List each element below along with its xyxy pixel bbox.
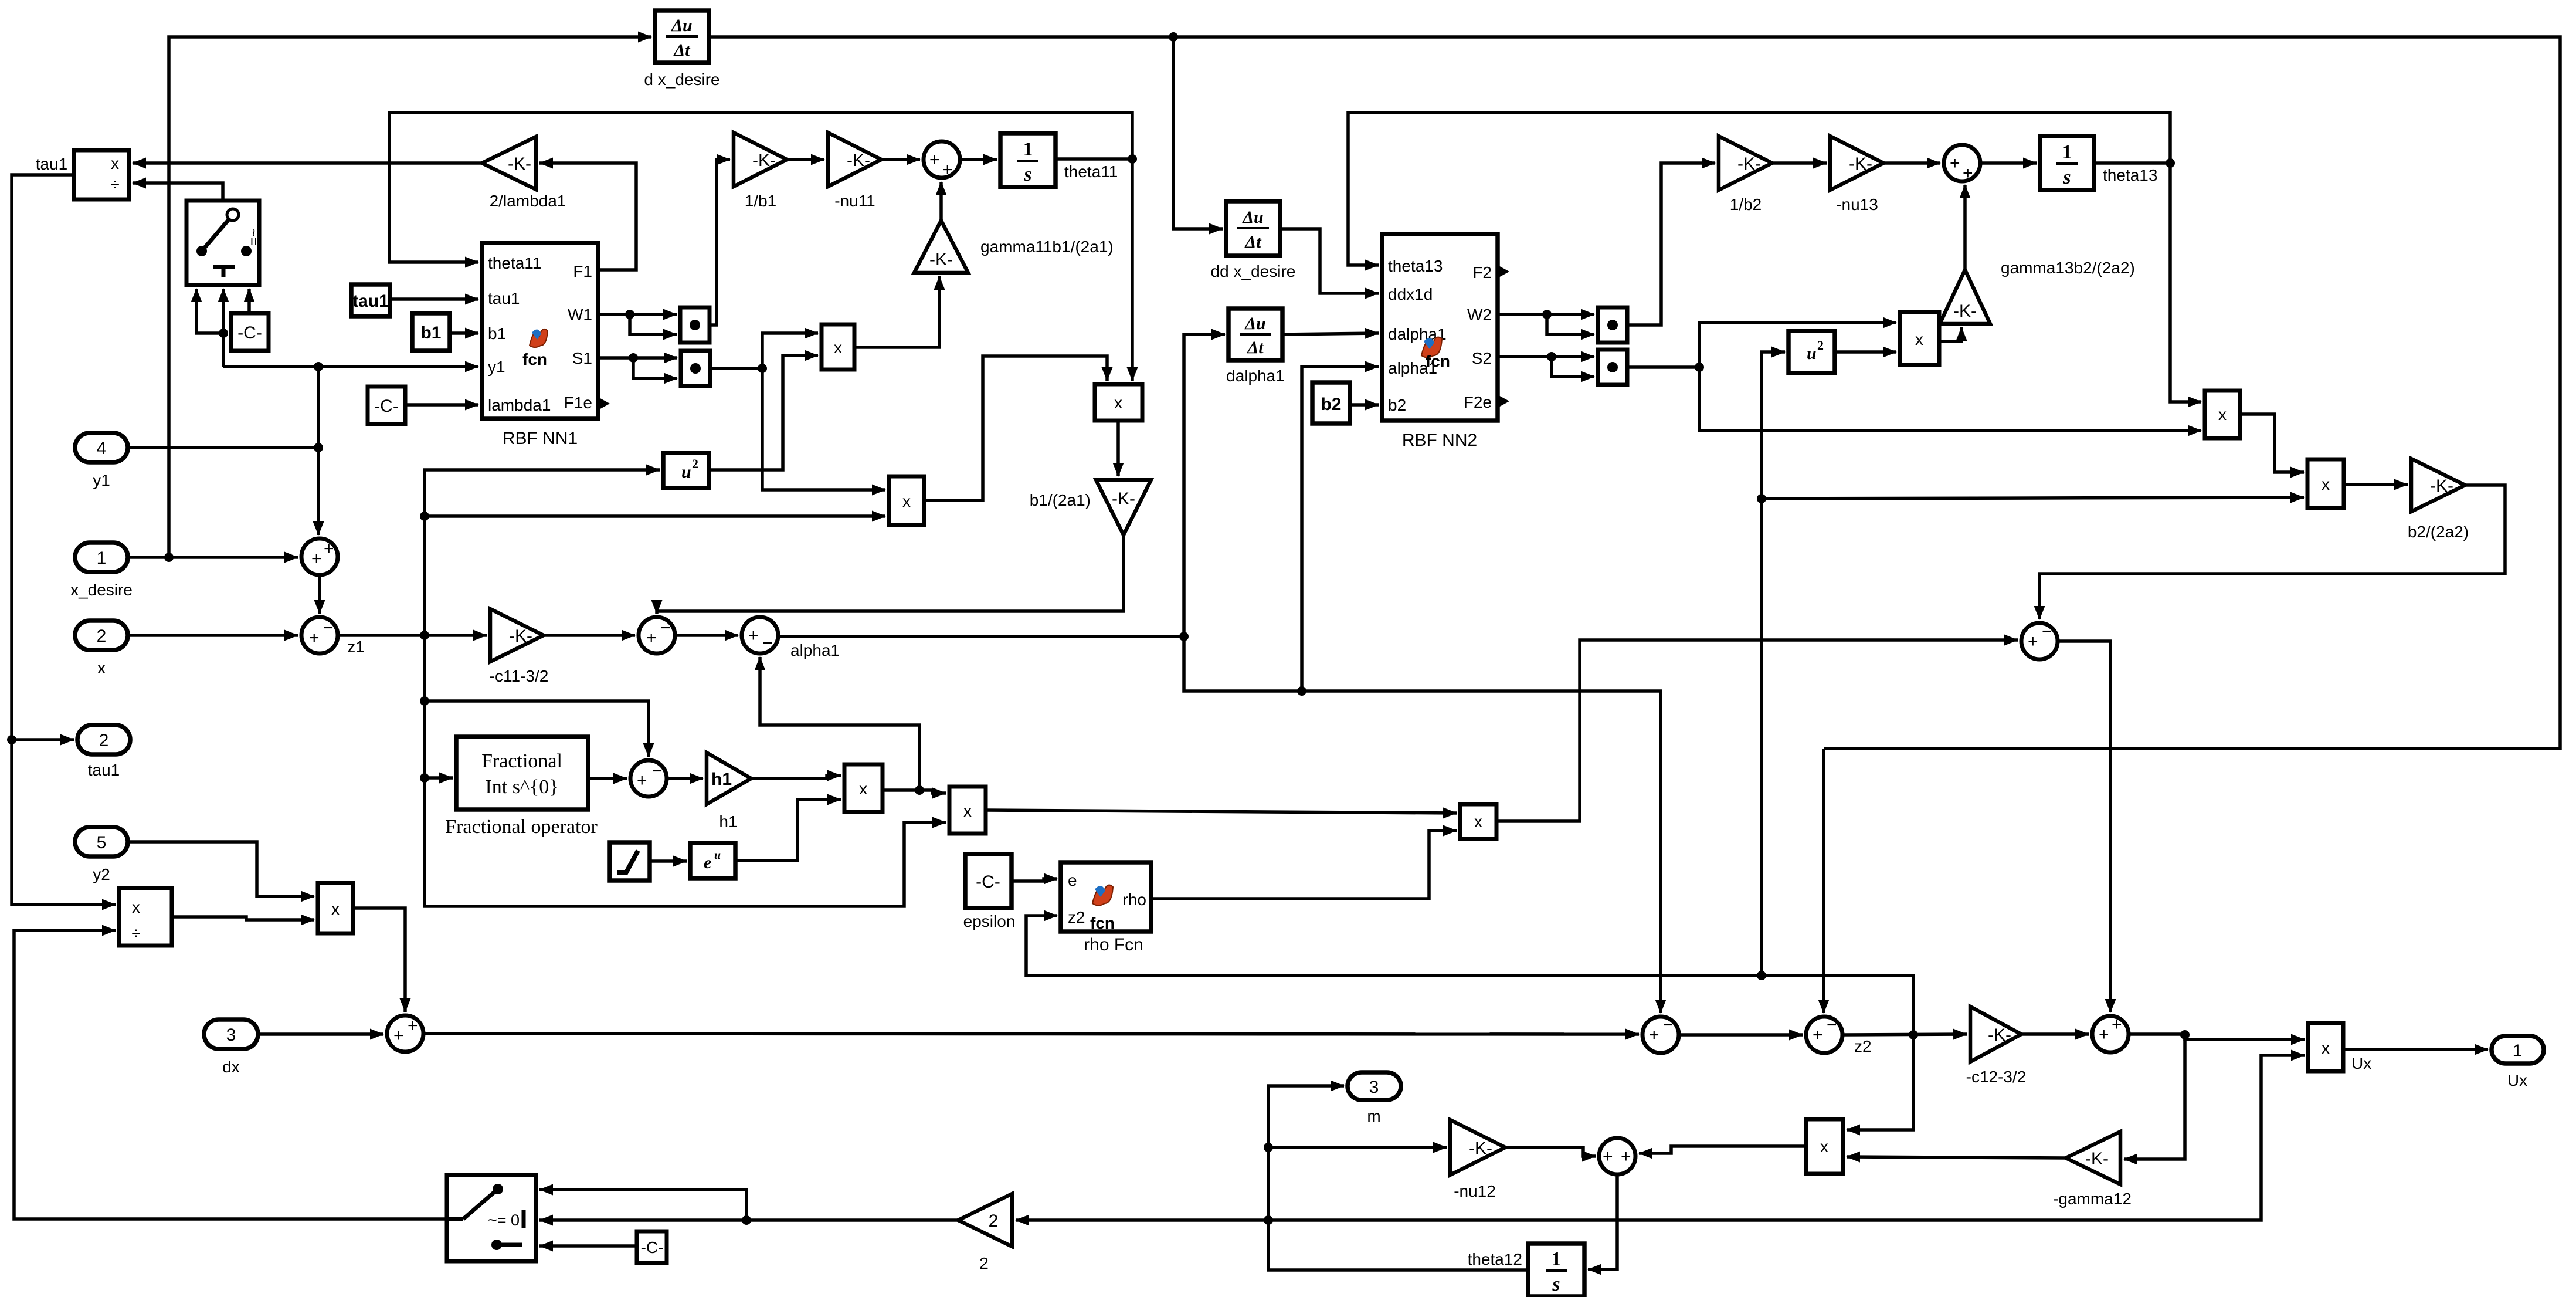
svg-text:Δu: Δu <box>671 16 693 35</box>
svg-text:tau1: tau1 <box>352 292 389 311</box>
gain -nu11 <box>828 133 881 187</box>
wire alpha1 up to dalpha1 <box>1184 334 1225 636</box>
svg-text:fcn: fcn <box>1090 914 1115 932</box>
wire W2 out <box>1498 313 1594 316</box>
svg-text:gamma11b1/(2a1): gamma11b1/(2a1) <box>980 238 1114 256</box>
wire S2sq out <box>1627 365 1699 369</box>
svg-text:Int s^{0}: Int s^{0} <box>485 776 558 798</box>
gain 1/b1 <box>734 133 787 187</box>
svg-text:theta11: theta11 <box>488 254 541 272</box>
svg-text:-K-: -K- <box>509 627 532 646</box>
wire tau1 to RBF NN1 <box>390 297 478 301</box>
svg-text:x: x <box>111 154 119 172</box>
svg-text:-nu12: -nu12 <box>1454 1182 1496 1200</box>
svg-text:+: + <box>311 549 322 568</box>
svg-text:-K-: -K- <box>1112 489 1135 509</box>
wire xY to sum6 <box>353 908 405 1012</box>
wire alpha1 down right <box>1184 636 1661 1013</box>
svg-text:S1: S1 <box>572 349 592 367</box>
product x1rho <box>844 764 883 812</box>
svg-text:x: x <box>859 780 867 798</box>
svg-text:2: 2 <box>692 456 698 471</box>
wire branch to switch input1 <box>539 1190 746 1220</box>
wire z1 to fractional int <box>425 776 453 780</box>
wire -C- to lambda1 <box>405 403 478 407</box>
gain -nu13 <box>1830 136 1883 190</box>
derivative block d x_desire <box>655 11 709 63</box>
wire S2 bypass <box>1552 357 1594 377</box>
wire S1 bypass <box>633 358 677 378</box>
svg-text:-K-: -K- <box>2430 476 2453 496</box>
svg-text:-C-: -C- <box>641 1238 664 1257</box>
svg-text:x: x <box>1820 1137 1828 1156</box>
svg-text:-nu11: -nu11 <box>834 192 875 210</box>
svg-text:+: + <box>929 150 940 170</box>
wire alpha1 riser to RBF NN2 <box>1302 367 1379 691</box>
source block b1 <box>412 313 450 351</box>
wire sum7 to Ux product <box>2129 1034 2305 1039</box>
svg-text:+: + <box>1603 1147 1613 1166</box>
svg-text:1: 1 <box>1023 138 1033 160</box>
derivative block dalpha1 <box>1228 309 1282 360</box>
svg-text:1/b1: 1/b1 <box>745 192 777 210</box>
source block b2 <box>1312 382 1350 424</box>
svg-text:+: + <box>2099 1025 2109 1044</box>
wire x_desire to sum1 <box>128 556 298 559</box>
svg-text:−: − <box>1827 1015 1837 1035</box>
svg-text:1/b2: 1/b2 <box>1730 195 1762 214</box>
wire theta12 to 2 gain <box>1016 1218 1268 1222</box>
wire -C- to switch input3 <box>539 1244 637 1248</box>
math block e^u <box>690 843 735 878</box>
svg-text:m: m <box>1367 1107 1380 1125</box>
wire sum8 down to 1/s theta12 <box>1588 1174 1617 1269</box>
svg-text:x: x <box>2322 1039 2330 1057</box>
svg-text:1: 1 <box>2513 1041 2523 1061</box>
svg-text:Δt: Δt <box>1247 338 1264 357</box>
gain 2 (left) <box>958 1194 1012 1247</box>
svg-text:RBF NN2: RBF NN2 <box>1402 431 1477 450</box>
svg-text:1: 1 <box>1552 1248 1562 1270</box>
svg-text:-c12-3/2: -c12-3/2 <box>1966 1068 2027 1086</box>
svg-text:rho Fcn: rho Fcn <box>1084 935 1143 954</box>
wire y1 line into RBF NN1 <box>318 365 478 368</box>
svg-text:-K-: -K- <box>1988 1025 2011 1045</box>
svg-text:lambda1: lambda1 <box>488 396 551 414</box>
wire z1 down distribution <box>425 635 946 906</box>
svg-text:theta12: theta12 <box>1468 1250 1522 1268</box>
svg-text:−: − <box>660 618 671 638</box>
wire dx line to sum5 <box>423 1034 1639 1034</box>
svg-text:−: − <box>1663 1015 1674 1035</box>
dot product W2 <box>1598 307 1627 343</box>
junction theta11 <box>1128 154 1137 164</box>
wire saturation to exp <box>650 859 687 863</box>
svg-text:-K-: -K- <box>1953 302 1977 321</box>
wire xR up to sumR <box>1496 640 2018 821</box>
sum8 <box>1599 1138 1635 1174</box>
svg-text:1: 1 <box>2062 141 2072 163</box>
svg-text:~= 0: ~= 0 <box>488 1211 520 1229</box>
svg-text:Δt: Δt <box>673 40 691 60</box>
svg-text:-K-: -K- <box>508 154 531 174</box>
gain -c12-3/2 <box>1970 1007 2021 1062</box>
svg-text:epsilon: epsilon <box>963 912 1016 930</box>
svg-text:3: 3 <box>226 1025 236 1045</box>
svg-text:+: + <box>2028 632 2038 651</box>
svg-text:-K-: -K- <box>752 151 776 170</box>
port 2 x <box>75 621 128 650</box>
wire y1 port to junction <box>128 446 318 449</box>
svg-text:2: 2 <box>1817 338 1824 353</box>
svg-text:+: + <box>408 1016 418 1035</box>
svg-text:x: x <box>331 900 340 918</box>
wire switch1 input 3 from -C- <box>247 289 251 313</box>
math block u2 second <box>1788 331 1835 373</box>
svg-text:+: + <box>748 626 759 645</box>
sum3 <box>639 617 675 653</box>
subsystem RBF NN2 <box>1382 234 1509 421</box>
wire sumR to sum7 <box>2058 641 2110 1012</box>
integrator 1/s theta11 <box>1000 133 1055 187</box>
svg-text:x: x <box>1474 812 1482 831</box>
wire S2 out <box>1498 355 1594 358</box>
svg-text:b1: b1 <box>420 323 441 343</box>
svg-text:e: e <box>704 853 711 872</box>
wire theta12 to Ux product bottom <box>1268 1055 2305 1220</box>
switch block 1 (vertical) <box>186 201 263 285</box>
wire theta12 out riser <box>1268 1086 1528 1270</box>
wire branch to dd x_desire <box>1173 37 1223 229</box>
svg-text:Ux: Ux <box>2507 1071 2527 1089</box>
wire sum to integrator <box>960 158 997 161</box>
derivative block dd x_desire <box>1226 201 1280 256</box>
wire u2b to xZ <box>1835 350 1896 354</box>
wire sum7 down to -gamma12 <box>2124 1035 2185 1159</box>
svg-text:−: − <box>762 634 773 653</box>
svg-text:u: u <box>1807 344 1817 363</box>
wire z1 <box>338 634 487 637</box>
wire x_desire riser to top loop <box>169 37 651 557</box>
wire y1 riser <box>317 367 320 448</box>
integrator 1/s theta13 <box>2040 136 2094 190</box>
wire -c12 to sum7 <box>2021 1032 2089 1036</box>
gain 2/lambda1 <box>482 137 536 189</box>
svg-text:+: + <box>1950 154 1960 173</box>
svg-text:Δu: Δu <box>1242 208 1264 227</box>
svg-text:Δu: Δu <box>1244 314 1266 333</box>
wire xT to xU <box>2240 414 2304 472</box>
svg-text:-K-: -K- <box>1469 1139 1492 1158</box>
wire fractional to h1 sum <box>588 777 627 780</box>
port 3 dx <box>204 1020 258 1049</box>
wire integrator out <box>1055 157 1132 161</box>
wire x-div to product xY <box>172 917 314 920</box>
dot product S2 <box>1598 350 1627 385</box>
svg-text:s: s <box>1552 1274 1560 1295</box>
svg-text:x: x <box>1915 330 1923 348</box>
svg-text:x: x <box>2218 405 2227 424</box>
wire y1 to sum1 <box>317 448 320 535</box>
svg-text:+: + <box>2112 1015 2122 1034</box>
wire W1 bypass <box>630 314 677 334</box>
wire d x_desire down to z2 sum <box>1822 749 1825 1013</box>
port 5 y2 <box>75 827 128 856</box>
junction tau1 out <box>7 735 16 744</box>
svg-text:-K-: -K- <box>1737 154 1761 174</box>
wire theta11 loop top <box>389 113 1132 262</box>
port 4 y1 <box>75 433 128 462</box>
wire dalpha1 to RBF NN2 <box>1282 333 1379 334</box>
svg-text:y1: y1 <box>488 358 505 376</box>
product x-div bottom <box>119 888 172 946</box>
svg-text:+: + <box>637 771 647 790</box>
wire W1sq to 1/b1 <box>710 160 730 325</box>
junction top line <box>1169 32 1178 42</box>
wire W2sq to 1/b2 <box>1627 163 1715 325</box>
wire x1rho out junction <box>883 790 946 793</box>
svg-text:−: − <box>323 618 334 638</box>
svg-text:-K-: -K- <box>2085 1149 2109 1169</box>
svg-text:-c11-3/2: -c11-3/2 <box>490 667 549 685</box>
gain gamma13b2/(2a2) <box>1940 270 1990 324</box>
wire 1/b1 to -nu11 <box>787 158 824 161</box>
gain 1/b2 <box>1719 136 1772 190</box>
svg-text:ddx1d: ddx1d <box>1388 285 1433 303</box>
wire -nu12 to sum8 <box>1505 1147 1596 1156</box>
wire y2 to product xY <box>128 842 314 896</box>
svg-text:+: + <box>646 628 657 648</box>
wire xG to sum8 <box>1639 1146 1806 1153</box>
wire product output left down to x-divide <box>12 175 116 905</box>
sum h1 <box>630 760 667 797</box>
wire xZ to gamma13 <box>1939 327 1961 341</box>
svg-text:-K-: -K- <box>929 250 953 269</box>
svg-text:-K-: -K- <box>1849 154 1872 174</box>
svg-text:2: 2 <box>979 1254 989 1272</box>
wire theta11 down to product <box>1131 159 1134 381</box>
wire 2 gain to switch inputs <box>539 1218 958 1222</box>
fcn block rho Fcn <box>1061 862 1151 932</box>
svg-text:-C-: -C- <box>976 872 1000 892</box>
wire dd x_desire to ddx1d <box>1280 229 1379 293</box>
wire F1 to 2/lambda1 <box>539 163 636 270</box>
svg-text:b1: b1 <box>488 324 506 343</box>
gain -gamma12 (left) <box>2066 1132 2120 1184</box>
svg-text:u: u <box>681 462 691 482</box>
svg-text:+: + <box>1813 1025 1823 1045</box>
svg-text:+: + <box>942 160 953 180</box>
svg-text:x: x <box>834 338 842 357</box>
constant -C- epsilon <box>965 854 1012 908</box>
wire epsilon to rho fcn <box>1012 879 1057 881</box>
wire switch1 output to divide port <box>133 183 223 201</box>
svg-text:x: x <box>1114 394 1122 412</box>
wire switch2 output to left riser <box>14 930 447 1219</box>
wire to port tau1 <box>12 738 74 741</box>
wire sum5 to z2 sum <box>1679 1033 1803 1037</box>
wire z1 riser up to u2 <box>425 470 660 635</box>
svg-text:tau1: tau1 <box>36 155 68 173</box>
wire theta12 to -nu12 <box>1268 1146 1447 1149</box>
svg-text:theta13: theta13 <box>1388 257 1443 275</box>
svg-text:+: + <box>324 539 334 558</box>
sum4 alpha1 <box>742 617 778 653</box>
svg-text:÷: ÷ <box>110 175 119 194</box>
product xS (S1sq x z1) <box>889 476 924 525</box>
svg-text:x: x <box>963 802 972 820</box>
product xY <box>318 883 353 933</box>
wire x2rho out to xR <box>986 810 1457 813</box>
wire -nu13 to sum9 <box>1883 161 1940 165</box>
svg-text:F1e: F1e <box>564 394 592 412</box>
svg-text:2/lambda1: 2/lambda1 <box>490 192 566 210</box>
wire exp to product x1rho <box>735 800 841 861</box>
wire W1 out <box>598 313 677 316</box>
svg-text:Ux: Ux <box>2351 1054 2371 1072</box>
gain -c11-3/2 <box>490 609 544 662</box>
port 1 x_desire <box>75 543 128 572</box>
gain gamma11b1/(2a1) <box>914 221 968 273</box>
svg-text:Fractional operator: Fractional operator <box>445 816 598 838</box>
svg-text:fcn: fcn <box>522 350 547 368</box>
svg-text:h1: h1 <box>719 812 737 831</box>
svg-text:1: 1 <box>97 548 107 568</box>
svg-text:W1: W1 <box>568 306 592 324</box>
svg-text:h1: h1 <box>711 770 732 789</box>
svg-text:x_desire: x_desire <box>70 581 133 599</box>
wire sum3 to sum4 <box>675 634 738 637</box>
svg-text:x: x <box>132 898 140 916</box>
sum2 z1 <box>301 617 338 653</box>
svg-text:d x_desire: d x_desire <box>644 70 719 89</box>
svg-text:-C-: -C- <box>237 323 262 343</box>
svg-text:-nu13: -nu13 <box>1836 195 1878 214</box>
svg-text:-K-: -K- <box>847 151 870 170</box>
svg-text:F2: F2 <box>1472 263 1492 282</box>
block Fractional Int <box>456 737 588 810</box>
svg-text:3: 3 <box>1369 1078 1379 1097</box>
wire gamma to sum <box>939 182 943 221</box>
wire z1 to h1 sum top <box>425 701 649 757</box>
svg-text:Fractional: Fractional <box>481 750 562 772</box>
svg-text:gamma13b2/(2a2): gamma13b2/(2a2) <box>2001 259 2135 277</box>
wire -nu11 to sum <box>881 158 920 161</box>
wire 2/lambda1 to product tau1 <box>133 161 482 165</box>
wire dx to sum6 <box>258 1032 383 1036</box>
wire bx down to b1/(2a1) <box>1116 421 1120 476</box>
wire u2 to product x1 bottom <box>709 355 818 470</box>
svg-text:b2/(2a2): b2/(2a2) <box>2408 523 2469 541</box>
wire xS up and to bx <box>924 356 1107 500</box>
product x2rho <box>949 787 986 834</box>
svg-text:−: − <box>2042 622 2052 641</box>
svg-text:2: 2 <box>99 731 109 750</box>
product x1 (W1sq x u2) <box>822 324 854 370</box>
svg-text:2: 2 <box>989 1211 999 1231</box>
sum7 <box>2092 1015 2129 1052</box>
svg-text:x: x <box>97 659 106 677</box>
wire theta13 loop <box>1348 113 2170 265</box>
wire x to sum2 <box>128 634 298 637</box>
wire d x_desire output top line <box>709 37 2560 749</box>
wire S1sq to product x1 top <box>762 333 818 368</box>
svg-text:dx: dx <box>222 1058 240 1076</box>
svg-text:+: + <box>1621 1147 1631 1166</box>
svg-text:RBF NN1: RBF NN1 <box>503 429 578 448</box>
constant -C- switch2 <box>637 1231 667 1263</box>
svg-text:s: s <box>1023 164 1031 185</box>
wire z1 to product xS bottom <box>425 514 885 518</box>
port 2 tau1 output <box>77 725 130 754</box>
svg-text:z2: z2 <box>1854 1037 1872 1055</box>
sum1 x_desire+y1 <box>301 539 338 575</box>
svg-text:+: + <box>309 628 320 648</box>
svg-text:tau1: tau1 <box>488 289 520 307</box>
svg-text:S2: S2 <box>1472 349 1492 367</box>
svg-text:tau1: tau1 <box>88 761 120 779</box>
gain h1 <box>707 753 751 804</box>
port 1 Ux <box>2492 1036 2544 1064</box>
svg-text:b2: b2 <box>1388 396 1406 414</box>
svg-text:W2: W2 <box>1467 306 1492 324</box>
svg-text:÷: ÷ <box>131 924 140 942</box>
wire sum9 to 1/s2 <box>1980 161 2037 165</box>
sum9 theta13 <box>1944 145 1980 183</box>
wire z2sq to xU bottom <box>1762 497 2304 499</box>
wire y1 branch to switch <box>223 365 318 368</box>
svg-text:u: u <box>714 849 721 862</box>
dot product S1 <box>681 351 710 386</box>
svg-text:Δt: Δt <box>1244 232 1262 252</box>
wire Ux to port <box>2343 1048 2488 1051</box>
wire -c11 to sum3 <box>544 634 635 637</box>
wire b1 to RBF NN1 <box>450 331 478 335</box>
wire S2sq down right <box>1699 367 2201 431</box>
wire z2 feedback to rho fcn <box>1026 916 1913 1035</box>
port 1 Ux product <box>2308 1023 2343 1071</box>
svg-text:+: + <box>1649 1025 1659 1045</box>
wire sum to h1 <box>667 777 703 780</box>
svg-text:fcn: fcn <box>1426 352 1450 370</box>
wire z2 riser to u2 <box>1762 352 1785 976</box>
gain b1/(2a1) down <box>1096 480 1151 535</box>
wire -gamma12 to xG <box>1847 1157 2066 1158</box>
constant -C- switch1 <box>231 313 269 351</box>
wire gamma13 to sum9 <box>1963 185 1967 270</box>
wire S1sq out <box>710 367 762 370</box>
dot product W1 <box>680 307 710 343</box>
source block tau1 <box>351 285 390 316</box>
svg-text:y1: y1 <box>93 471 110 489</box>
gain b2/(2a2) <box>2411 459 2465 512</box>
svg-text:-gamma12: -gamma12 <box>2053 1190 2132 1208</box>
svg-text:−: − <box>652 761 663 781</box>
sum z2 <box>1806 1015 1842 1053</box>
svg-text:+: + <box>1963 164 1973 183</box>
svg-text:5: 5 <box>97 833 107 852</box>
product xU <box>2307 459 2344 508</box>
svg-text:b2: b2 <box>1321 395 1341 414</box>
svg-text:s: s <box>2062 167 2071 188</box>
constant -C- lambda1 <box>368 387 405 424</box>
product block x-div tau1 (reversed) <box>74 150 129 199</box>
svg-text:F1: F1 <box>573 262 592 280</box>
sum5 <box>1642 1015 1679 1053</box>
wire alpha1 distribution <box>778 635 1184 638</box>
svg-text:~=: ~= <box>245 228 263 246</box>
svg-text:theta11: theta11 <box>1064 162 1118 181</box>
